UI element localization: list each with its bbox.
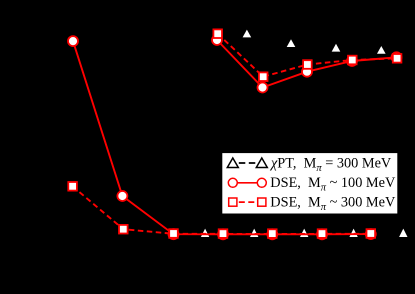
chiPT triangle marker T9 (inset) [377,46,386,54]
svg-text:DSE, Mπ ~ 300 MeV: DSE, Mπ ~ 300 MeV [270,194,396,213]
chiPT triangle marker T5 (bottom row) [399,229,407,237]
legend chiPT triangle right [256,158,267,168]
svg-text:χPT, Mπ = 300 MeV: χPT, Mπ = 300 MeV [269,155,392,174]
svg-text:DSE, Mπ ~ 100 MeV: DSE, Mπ ~ 100 MeV [270,175,396,194]
chiPT triangle marker T4 (bottom row) [349,229,357,237]
legend chiPT triangle left [227,158,238,168]
legend DSE100 solid line [237,182,258,184]
legend DSE300 dashed line [239,201,256,203]
legend DSE300 square left [229,198,237,206]
legend chiPT dashed line [239,162,256,164]
DSE 300MeV dashed red curve (inset) [218,34,397,77]
legend DSE300 square right [258,198,266,206]
DSE 300MeV square markers [68,29,401,238]
DSE 100MeV solid red curve (main) [73,41,371,234]
DSE 300MeV dashed red curve (main) [73,186,371,234]
chiPT triangle marker T1 (bottom row) [201,229,209,237]
chiPT triangle marker T3 (bottom row) [300,229,308,237]
DSE 100MeV circle markers [68,35,402,239]
chiPT triangle marker T6 (inset) [243,30,252,38]
chiPT triangle marker T8 (inset) [332,44,341,52]
chiPT triangle marker T7 (inset) [287,39,296,47]
legend DSE100 circle left [228,178,237,187]
legend box [222,153,398,214]
legend DSE100 circle right [257,178,266,187]
chiPT triangle marker T2 (bottom row) [250,229,258,237]
DSE 100MeV solid red curve (inset) [217,40,397,88]
